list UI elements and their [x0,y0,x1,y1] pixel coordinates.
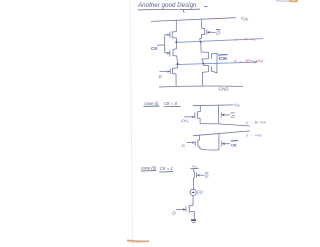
ground (case ii) [191,219,196,221]
transistor M3 (NMOS left-bottom) [170,64,177,86]
wire: VDD rail to M1 source [175,20,177,32]
sub-circuit B bottom rail [200,149,219,150]
orange smudge top-right [289,0,298,2]
orange smudge bottom [127,239,149,242]
wire: node A to M12 [192,196,194,206]
VDD rail (case ii) [191,167,199,169]
sub-circuit A bottom rail [200,124,250,126]
M7 gate arrow [192,116,195,119]
svg-text:VDD: VDD [234,103,240,108]
svg-text:y → R +ve: y → R +ve [234,38,256,42]
svg-text:y → B +ve: y → B +ve [245,120,266,124]
M1 gate arrow [165,34,167,36]
M12 gate arrow [183,208,186,211]
junction dot node x left [177,63,179,65]
transistor M6 (right-mid lower) [202,63,211,85]
svg-text:CK = 1: CK = 1 [160,166,173,172]
svg-text:D: D [216,30,220,36]
M11 gate arrow [197,174,200,177]
svg-text:D: D [205,174,209,180]
sub-circuit A top rail [193,104,233,107]
svg-text:CK: CK [219,56,229,62]
svg-text:D: D [172,211,176,217]
transistor M8 (PMOS case i right) [219,105,230,124]
title dash [204,5,208,7]
svg-text:CK = 0: CK = 0 [164,101,177,107]
transistor M10 (case i B right, CK-bar) [219,134,230,150]
M2 gate arrow [167,52,170,55]
sub-circuit B top rail [193,131,250,136]
svg-text:CK: CK [151,46,158,52]
svg-text:x → (R∞ μs): x → (R∞ μs) [233,59,264,63]
junction dot node y left [176,41,178,43]
transistor M1 (PMOS left-top) [170,32,177,42]
transistor M12 (NMOS case ii) [176,205,195,219]
GND rail [159,85,243,88]
node A inner arrow [192,191,194,193]
node x arrowhead [254,61,258,64]
title underline [138,8,200,11]
node y wire (blue) [175,39,263,43]
M8 gate arrow [221,114,224,117]
node A circle [190,189,196,195]
transistor M2 (PMOS left-mid) [170,42,178,64]
junction dot node x right [202,62,204,64]
node x wire (blue) [176,62,256,64]
gate bus CK-bar (M5,M6) [211,54,217,73]
wire: CK input (blue) [157,44,165,46]
M10 gate arrow [222,142,225,145]
VDD rail [151,18,236,22]
svg-text:GND: GND [219,86,229,91]
svg-text:VDD: VDD [241,16,249,22]
svg-text:D: D [182,143,185,148]
M9 gate arrow [192,141,195,144]
M4 gate lead with arrow [207,31,210,34]
wire: D input to M3 gate [160,70,168,72]
transistor M7 (PMOS case i left) [184,106,200,124]
svg-text:(A): (A) [197,189,203,194]
svg-text:Another good Design: Another good Design [137,2,197,9]
transistor M9 (case i B left, D) [187,135,200,148]
wire: VDD rail to M4 [201,20,203,29]
margin crease line [130,0,133,247]
transistor M4 (PMOS right-top) [200,28,207,42]
svg-text:CK0: CK0 [181,118,189,124]
junction dot node y right [200,41,202,43]
transistor M11 (PMOS case ii) [193,169,204,190]
gate bus CK (M1,M2) [165,35,170,53]
title underline tick [183,10,184,13]
transistor M5 (right-mid upper) [201,42,212,63]
svg-text:D: D [231,114,235,120]
svg-text:CK: CK [231,143,237,148]
svg-text:x → +ve: x → +ve [245,134,262,138]
